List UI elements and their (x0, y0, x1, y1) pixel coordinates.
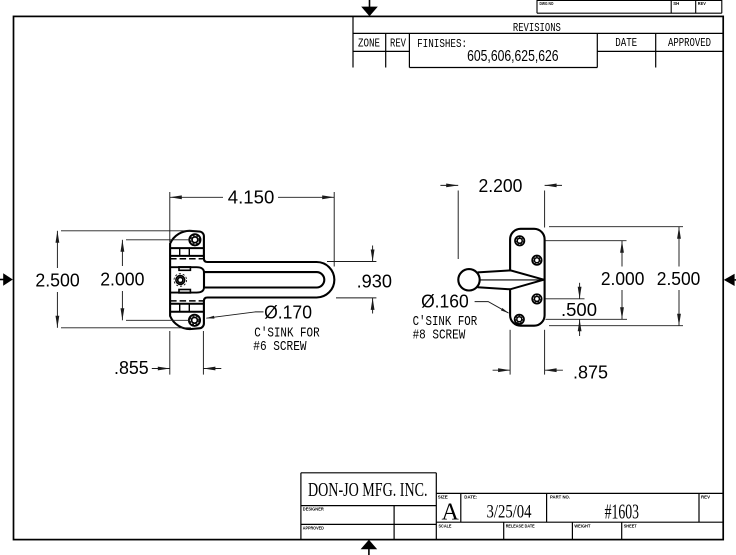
dimensions left view (57, 192, 376, 375)
hub bottom edge (170, 287, 204, 292)
alignment arrow right (724, 274, 736, 286)
svg-text:2.000: 2.000 (601, 269, 645, 289)
svg-text:#1603: #1603 (605, 500, 639, 524)
dim .500 arrow stems (579, 283, 581, 299)
svg-text:Ø.170: Ø.170 (264, 302, 312, 322)
leader .170 (206, 312, 263, 318)
arm inner slot (204, 272, 324, 287)
svg-text:#6 SCREW: #6 SCREW (253, 340, 307, 355)
dim 2.200 arrow stems (440, 184, 458, 186)
svg-text:REV: REV (701, 495, 711, 500)
dim 2.000R ext lines (546, 240, 627, 242)
knob ball (458, 269, 479, 290)
strike hole 4 (515, 315, 524, 324)
dashed bend line lower (170, 300, 203, 302)
pivot hole (174, 274, 187, 287)
svg-text:#8 SCREW: #8 SCREW (413, 328, 466, 343)
dim .500 ext line (546, 298, 585, 300)
hub bottom notch (179, 290, 190, 293)
dim 2.500 ext lines (61, 230, 197, 232)
strike hole 2 (532, 256, 541, 265)
strike hole 1 (515, 236, 524, 245)
dim 2.200 ext lines (457, 191, 459, 260)
dashed bend line upper (170, 258, 203, 260)
plate and arm outer outline (170, 231, 334, 329)
svg-text:DATE: DATE (615, 37, 637, 50)
svg-text:605,606,625,626: 605,606,625,626 (467, 48, 558, 65)
svg-text:REV: REV (698, 1, 707, 6)
dim .875 arrow stems (493, 369, 511, 371)
strike plate outline (510, 229, 544, 326)
lower ticks (179, 304, 181, 312)
svg-text:REVISIONS: REVISIONS (513, 21, 561, 35)
leader .160 (475, 302, 509, 314)
title block (301, 473, 723, 540)
svg-text:PART NO.: PART NO. (550, 495, 570, 500)
svg-text:.875: .875 (573, 362, 608, 382)
svg-text:DATE:: DATE: (464, 495, 477, 500)
dim 2.000 line (121, 240, 123, 266)
top screw hole (189, 234, 200, 245)
dim .855 arrow stems (152, 368, 170, 370)
svg-text:2.500: 2.500 (657, 269, 701, 289)
svg-text:WEIGHT: WEIGHT (574, 524, 590, 529)
dim .855 ext lines (169, 331, 171, 375)
dim .875 ext lines (509, 330, 511, 375)
dim 2.500 line (56, 231, 58, 268)
svg-text:SHEET: SHEET (624, 524, 637, 529)
arrowheads right view (446, 184, 681, 373)
dim 2.000 ext lines (126, 239, 190, 241)
plate section line upper2 (170, 255, 204, 257)
svg-text:DWG NO: DWG NO (540, 1, 554, 6)
dim .930 ext lines (327, 261, 376, 263)
latch diamond fill (478, 270, 544, 289)
alignment arrow top (361, 0, 378, 16)
dim 2.500R line (678, 227, 680, 267)
latch diamond edges (478, 270, 544, 289)
dimensions right view (440, 185, 683, 374)
bottom screw hole (189, 315, 200, 326)
plate section line lower1 (170, 303, 204, 305)
svg-text:REV: REV (390, 38, 406, 51)
svg-text:RELEASE DATE: RELEASE DATE (506, 524, 535, 529)
alignment arrow left (0, 273, 13, 286)
hub top notch (179, 267, 190, 270)
svg-text:ZONE: ZONE (358, 38, 380, 51)
svg-text:3/25/04: 3/25/04 (487, 502, 532, 523)
svg-text:2.500: 2.500 (35, 271, 79, 291)
svg-text:.500: .500 (561, 300, 597, 320)
svg-text:4.150: 4.150 (228, 188, 274, 208)
plate section line lower2 (170, 311, 204, 313)
latch midline (480, 279, 544, 281)
upper ticks (179, 248, 181, 256)
arrowheads left view (56, 195, 375, 370)
plate section line upper1 (170, 247, 204, 249)
svg-text:.855: .855 (114, 358, 149, 378)
dim .930 arrow stems (372, 246, 374, 262)
svg-text:Ø.160: Ø.160 (421, 292, 469, 312)
dim 2.500R ext lines (549, 226, 683, 228)
revisions table (353, 16, 723, 67)
dim 4.150 ext lines (169, 192, 171, 242)
dim 4.150 line (170, 196, 223, 198)
dim 2.000R line (621, 241, 623, 267)
alignment arrow bottom (361, 540, 378, 555)
top strip DWG NO / SH / REV (537, 0, 722, 13)
svg-text:2.000: 2.000 (100, 270, 144, 290)
svg-text:.930: .930 (357, 271, 392, 291)
svg-text:APPROVED: APPROVED (668, 37, 711, 50)
svg-text:2.200: 2.200 (479, 176, 523, 196)
svg-text:A: A (442, 500, 460, 526)
svg-text:DESIGNER: DESIGNER (303, 507, 325, 512)
strike hole 3 (532, 294, 541, 303)
svg-text:SH: SH (673, 1, 680, 6)
hub top edge (170, 267, 204, 272)
svg-text:DON-JO MFG. INC.: DON-JO MFG. INC. (308, 479, 428, 501)
svg-text:APPROVED: APPROVED (303, 525, 325, 530)
svg-text:FINISHES:: FINISHES: (417, 37, 467, 51)
